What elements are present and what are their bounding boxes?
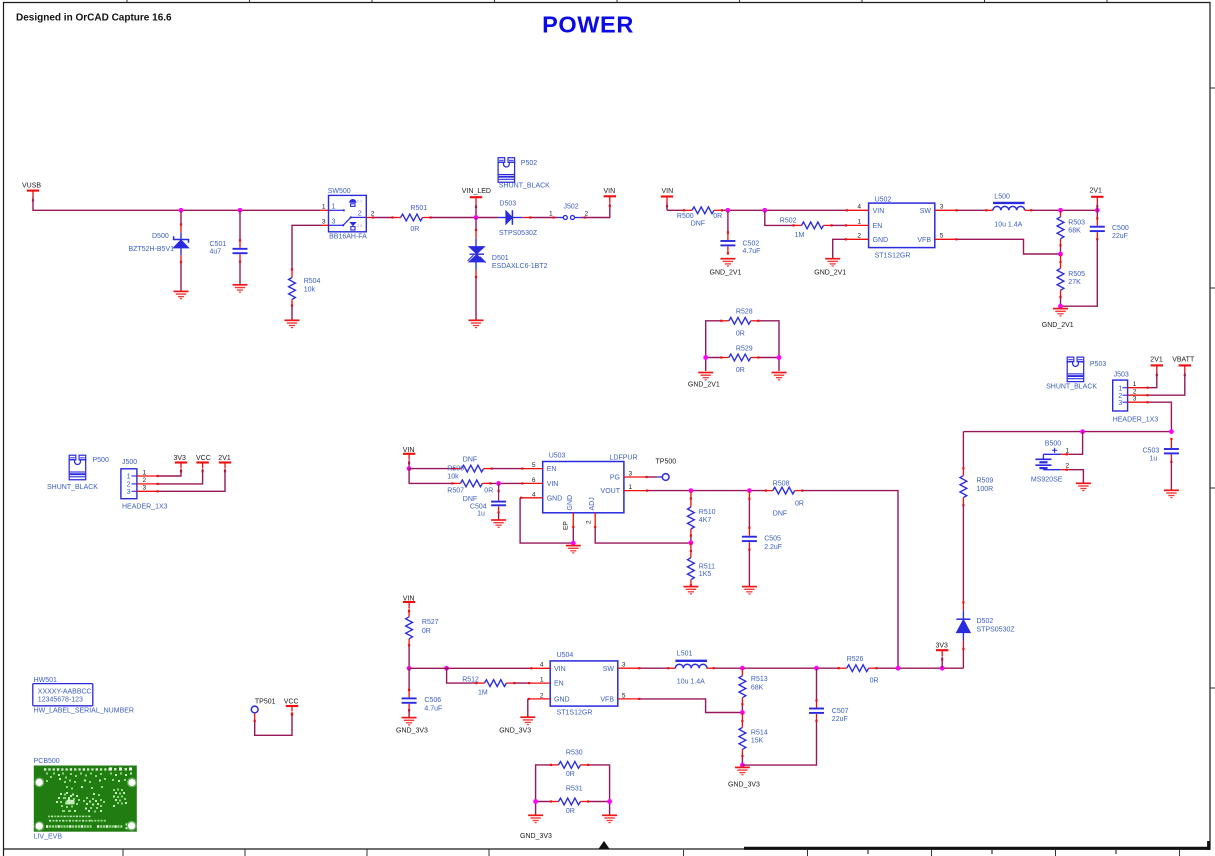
svg-text:D503: D503 <box>499 200 516 207</box>
wire R500 to U502 VIN <box>722 209 846 211</box>
switch SW500 BB16AH-FA <box>321 188 375 241</box>
svg-text:R526: R526 <box>847 656 864 663</box>
resistor R506 10k DNF <box>447 457 492 481</box>
svg-text:1u: 1u <box>477 510 485 517</box>
wire J502 pin 2 to VIN flag <box>581 203 610 217</box>
svg-text:HEADER_1X3: HEADER_1X3 <box>1113 417 1159 424</box>
svg-text:U503: U503 <box>549 452 566 459</box>
svg-text:EP: EP <box>563 521 570 530</box>
svg-text:VCC: VCC <box>196 455 211 462</box>
svg-text:6: 6 <box>532 477 536 484</box>
wire VIN to R500 <box>667 209 684 211</box>
ground GND_2V1 at U502 <box>814 259 846 277</box>
capacitor C502 4.7uF <box>720 210 760 255</box>
junction node C507 top <box>814 666 819 671</box>
svg-text:DNF: DNF <box>773 511 787 518</box>
svg-text:0R: 0R <box>566 808 575 815</box>
svg-text:STPS0530Z: STPS0530Z <box>977 627 1016 634</box>
svg-text:C505: C505 <box>764 536 781 543</box>
svg-text:R527: R527 <box>422 619 439 626</box>
svg-text:2.3: 2.3 <box>357 224 362 228</box>
svg-text:C502: C502 <box>743 241 760 248</box>
capacitor C507 22uF <box>809 668 849 723</box>
junction node R503 top <box>1058 208 1063 213</box>
power flag 3V3 <box>936 643 949 669</box>
svg-text:1: 1 <box>857 219 861 226</box>
wire R501 to VIN_LED node to D503 <box>431 217 498 219</box>
ground GND_3V3 at U504 <box>499 717 535 734</box>
svg-text:VFB: VFB <box>600 697 614 704</box>
wire U502 VFB to feedback node <box>958 239 1061 254</box>
svg-text:1: 1 <box>540 677 544 684</box>
svg-text:1: 1 <box>322 204 326 211</box>
wire SW500 pin 2 to R501 <box>374 217 393 219</box>
svg-text:4.7uF: 4.7uF <box>424 705 442 712</box>
svg-text:GND_2V1: GND_2V1 <box>688 381 720 388</box>
ground GND_3V3 at C506 <box>396 718 428 735</box>
junction node R529 right <box>777 355 782 360</box>
svg-text:2: 2 <box>540 692 544 699</box>
capacitor C500 22uF <box>1061 210 1129 306</box>
svg-text:U504: U504 <box>557 652 574 659</box>
junction node C501/VUSB <box>238 208 243 213</box>
wire U503 GND pin to ground node <box>520 498 573 543</box>
svg-text:PG: PG <box>610 475 620 482</box>
svg-text:2: 2 <box>586 520 593 524</box>
IC U502 ST1S12GR <box>845 197 958 260</box>
svg-text:DNF: DNF <box>463 457 477 464</box>
svg-text:4K7: 4K7 <box>699 517 712 524</box>
power flag VCC at TP501 <box>284 699 299 716</box>
junction node R513/R514 feedback <box>740 710 745 715</box>
title POWER <box>542 12 634 38</box>
ground GND_2V1 at R529 left <box>688 373 720 389</box>
svg-text:SHUNT_BLACK: SHUNT_BLACK <box>47 484 98 491</box>
svg-text:0R: 0R <box>422 628 431 635</box>
svg-text:3V3: 3V3 <box>174 455 187 462</box>
svg-text:2: 2 <box>585 211 589 218</box>
resistor R507 0R DNF <box>447 480 493 503</box>
svg-text:3: 3 <box>940 203 944 210</box>
shunt jumper P502 SHUNT_BLACK <box>498 158 550 190</box>
svg-text:12345678-123: 12345678-123 <box>38 696 83 703</box>
svg-text:R511: R511 <box>699 563 715 570</box>
IC U503 LDFPUR <box>520 452 648 530</box>
svg-text:C506: C506 <box>424 697 441 704</box>
sheet zone tick marks bottom edge <box>123 849 1180 856</box>
svg-text:3: 3 <box>332 217 336 226</box>
power flag VIN U503 input <box>403 447 416 469</box>
connector J503 HEADER_1X3 <box>1113 372 1159 424</box>
svg-text:VBATT: VBATT <box>1172 356 1195 363</box>
ground at R511 <box>683 587 698 594</box>
ground at C504 <box>491 520 506 527</box>
power flag VIN U502 input <box>661 188 673 210</box>
test point TP500 <box>648 458 677 480</box>
svg-text:VIN: VIN <box>662 188 674 195</box>
svg-text:1: 1 <box>332 202 336 211</box>
svg-text:L500: L500 <box>994 194 1010 201</box>
junction node U503 ground <box>571 541 576 546</box>
svg-text:ST1S12GR: ST1S12GR <box>875 253 911 260</box>
svg-text:GND: GND <box>547 495 563 502</box>
svg-text:MS920SE: MS920SE <box>1031 477 1063 484</box>
svg-text:3: 3 <box>143 485 147 492</box>
zener diode D500 BZT52H-B5V1 <box>129 210 189 291</box>
svg-text:SHUNT_BLACK: SHUNT_BLACK <box>499 182 550 189</box>
svg-text:2: 2 <box>143 477 147 484</box>
svg-text:GND_3V3: GND_3V3 <box>728 781 760 788</box>
svg-text:VOUT: VOUT <box>601 488 621 495</box>
svg-text:R506: R506 <box>447 465 464 472</box>
svg-text:D501: D501 <box>492 255 509 262</box>
svg-text:2: 2 <box>1133 388 1137 395</box>
svg-text:EN: EN <box>873 223 883 230</box>
svg-text:GND_3V3: GND_3V3 <box>499 727 531 734</box>
svg-text:C503: C503 <box>1143 448 1160 455</box>
battery B500 MS920SE <box>1031 432 1083 484</box>
resistor R528 0R <box>720 309 759 338</box>
svg-text:SW: SW <box>920 208 932 215</box>
wire B500 pin 2 to ground <box>1069 470 1084 483</box>
ground GND_2V1 at C502 <box>710 259 742 277</box>
svg-text:0R: 0R <box>795 500 804 507</box>
svg-text:R529: R529 <box>736 345 753 352</box>
svg-text:XXXXY-AABBCC: XXXXY-AABBCC <box>38 689 92 696</box>
wire R502 to U502 EN <box>832 224 845 226</box>
svg-text:DNF: DNF <box>463 496 477 503</box>
svg-text:VIN_LED: VIN_LED <box>462 188 491 195</box>
svg-text:4: 4 <box>532 491 536 498</box>
power flag 2V1 at J503 <box>1150 356 1163 376</box>
wire J500 pin 2 to VCC <box>159 469 203 484</box>
capacitor C505 2.2uF <box>742 491 782 587</box>
resistor R508 0R DNF <box>765 480 804 517</box>
svg-text:0R: 0R <box>566 771 575 778</box>
svg-text:VFB: VFB <box>917 237 931 244</box>
junction node C503 top <box>1169 429 1174 434</box>
wire VIN to R506 <box>409 468 454 470</box>
svg-text:3V3: 3V3 <box>936 643 949 650</box>
wire U503 ADJ pin down and right <box>595 528 691 543</box>
svg-text:R507: R507 <box>447 488 464 495</box>
svg-text:1M: 1M <box>478 690 488 697</box>
svg-text:HEADER_1X3: HEADER_1X3 <box>122 503 168 510</box>
junction node R512 branch <box>444 666 449 671</box>
junction node D500/VUSB <box>179 208 184 213</box>
power flag VIN right <box>604 188 617 207</box>
junction node VIN_LED <box>474 215 479 220</box>
svg-text:2V1: 2V1 <box>1150 356 1163 363</box>
svg-text:1: 1 <box>1066 447 1070 454</box>
svg-text:EN: EN <box>547 466 557 473</box>
wire branch to R502 <box>765 210 794 225</box>
resistor R500 0R DNF <box>677 207 723 228</box>
svg-text:2.1: 2.1 <box>357 200 362 204</box>
resistor R505 27K <box>1057 254 1085 306</box>
svg-text:0R: 0R <box>736 330 745 337</box>
svg-text:68K: 68K <box>1068 228 1081 235</box>
power flag 2V1 at J500 <box>218 455 231 472</box>
svg-text:EN: EN <box>554 681 564 688</box>
svg-text:4: 4 <box>540 662 544 669</box>
inductor L501 10u 1.4A <box>667 650 714 685</box>
svg-text:1K5: 1K5 <box>699 571 712 578</box>
svg-text:SHUNT_BLACK: SHUNT_BLACK <box>1046 384 1097 391</box>
svg-text:B500: B500 <box>1045 441 1061 448</box>
resistor R513 68K <box>739 668 768 712</box>
power flag VBATT at J503 <box>1172 356 1195 376</box>
svg-text:4.7uF: 4.7uF <box>743 248 761 255</box>
svg-text:15K: 15K <box>751 737 764 744</box>
svg-text:STPS0530Z: STPS0530Z <box>499 230 538 237</box>
wire VUSB to SW500 pin 1 <box>33 197 321 210</box>
svg-text:0R: 0R <box>713 213 722 220</box>
ground at D501 <box>469 320 484 327</box>
wire R526 to D502 anode <box>876 667 963 669</box>
wire R528/R529 loop <box>706 321 779 371</box>
svg-text:3: 3 <box>629 471 633 478</box>
svg-text:R508: R508 <box>773 480 790 487</box>
svg-text:3: 3 <box>127 487 131 496</box>
junction node C505 top <box>747 488 752 493</box>
svg-text:22uF: 22uF <box>1112 233 1128 240</box>
svg-text:VIN: VIN <box>554 666 566 673</box>
resistor R511 1K5 <box>688 543 716 587</box>
power flag VUSB <box>22 183 41 202</box>
wire VIN down to R507 <box>409 469 452 484</box>
resistor R502 1M <box>780 218 833 240</box>
svg-text:TP500: TP500 <box>656 458 677 465</box>
wire U504 SW to L501 <box>640 667 667 669</box>
svg-text:2: 2 <box>857 232 861 239</box>
resistor R509 100R <box>960 467 993 506</box>
svg-text:Designed in OrCAD Capture 16.6: Designed in OrCAD Capture 16.6 <box>16 13 172 24</box>
svg-text:10k: 10k <box>304 287 316 294</box>
wire branch to R512 <box>447 668 477 683</box>
svg-text:0R: 0R <box>870 678 879 685</box>
svg-text:VCC: VCC <box>284 699 299 706</box>
capacitor C504 1u <box>470 483 506 519</box>
svg-text:0R: 0R <box>736 367 745 374</box>
capacitor C506 4.7uF <box>402 668 443 717</box>
ground at C505 <box>742 587 757 594</box>
svg-text:L501: L501 <box>677 650 693 657</box>
junction node R529 left <box>703 355 708 360</box>
wire TP501 to VCC <box>255 713 292 735</box>
junction node 3V3 flag <box>940 666 945 671</box>
resistor R504 10k <box>289 268 321 320</box>
svg-text:22uF: 22uF <box>832 716 848 723</box>
svg-text:ST1S12GR: ST1S12GR <box>557 710 593 717</box>
junction node R513 top <box>740 666 745 671</box>
ground GND_2V1 at R505 <box>1042 309 1074 329</box>
svg-text:GND: GND <box>873 237 889 244</box>
svg-text:P500: P500 <box>93 457 109 464</box>
ground at C503 <box>1164 490 1179 497</box>
wire R530/R531 loop <box>536 765 610 815</box>
power flag VCC at J500 <box>196 455 211 472</box>
svg-text:VUSB: VUSB <box>22 183 41 190</box>
wire U504 GND to ground <box>527 699 529 717</box>
svg-text:C500: C500 <box>1112 225 1129 232</box>
svg-text:SW500: SW500 <box>328 188 351 195</box>
resistor R512 1M <box>462 676 515 696</box>
svg-text:ESDAXLC6-1BT2: ESDAXLC6-1BT2 <box>492 263 548 270</box>
ground at D500 <box>174 291 189 298</box>
svg-text:2V1: 2V1 <box>1090 187 1103 194</box>
junction node R502 branch <box>762 208 767 213</box>
sheet zone tick marks right edge <box>1210 88 1215 688</box>
svg-text:VIN: VIN <box>604 188 616 195</box>
svg-text:68K: 68K <box>751 685 764 692</box>
svg-text:1u: 1u <box>1150 456 1158 463</box>
junction node R531 left <box>533 799 538 804</box>
svg-text:5: 5 <box>622 692 626 699</box>
svg-text:PCB500: PCB500 <box>34 758 60 765</box>
wire R508 to 3V3 rail corner <box>802 491 898 669</box>
ground at R531 right <box>602 815 617 822</box>
sheet center alignment triangle bottom <box>599 842 609 849</box>
resistor R530 0R <box>550 749 589 778</box>
svg-text:D500: D500 <box>152 233 169 240</box>
svg-text:D502: D502 <box>977 618 994 625</box>
capacitor C503 1u <box>1143 438 1179 490</box>
svg-text:SW: SW <box>603 666 615 673</box>
svg-text:4u7: 4u7 <box>210 249 222 256</box>
ground at B500 <box>1076 483 1091 490</box>
wire R514 ground node to C507 bottom <box>742 721 816 765</box>
wire L500 to R503 and C500 and 2V1 <box>1032 209 1097 211</box>
junction node B500 top <box>1080 429 1085 434</box>
shunt jumper P503 SHUNT_BLACK <box>1046 357 1106 390</box>
svg-text:3: 3 <box>1118 398 1122 407</box>
svg-text:GND_2V1: GND_2V1 <box>1042 322 1074 329</box>
diode D503 STPS0530Z <box>498 200 538 237</box>
resistor R510 4K7 <box>688 491 716 543</box>
svg-text:3: 3 <box>322 219 326 226</box>
wire J503 pin 2 to VBATT <box>1149 372 1185 396</box>
svg-text:R513: R513 <box>751 676 768 683</box>
junction node R531 right <box>607 799 612 804</box>
svg-text:GND_3V3: GND_3V3 <box>396 727 428 734</box>
wire R509 to D502 <box>962 505 964 601</box>
svg-text:R501: R501 <box>410 205 427 212</box>
junction node C504 <box>496 481 501 486</box>
svg-text:0R: 0R <box>410 226 419 233</box>
svg-text:R530: R530 <box>566 749 583 756</box>
svg-text:R510: R510 <box>699 509 716 516</box>
svg-text:5: 5 <box>940 232 944 239</box>
junction node VIN U503 <box>407 466 412 471</box>
svg-text:R505: R505 <box>1068 271 1085 278</box>
wire J503 pin 1 to 2V1 <box>1149 372 1157 388</box>
TVS diode D501 ESDAXLC6-1BT2 <box>468 218 548 321</box>
wire L501 to R526 <box>715 667 839 669</box>
svg-text:R509: R509 <box>977 478 994 485</box>
text Designed in OrCAD Capture 16.6 <box>16 13 172 24</box>
junction node C502 <box>726 208 731 213</box>
svg-text:5: 5 <box>532 462 536 469</box>
svg-text:VIN: VIN <box>873 208 885 215</box>
ground GND_3V3 at R514 <box>728 767 760 788</box>
junction node R503/R505 feedback <box>1058 252 1063 257</box>
junction node R510 top <box>689 488 694 493</box>
wire SW500 pin 3 to R504 <box>292 225 322 269</box>
svg-text:GND_3V3: GND_3V3 <box>520 833 552 840</box>
ground at U503 EP <box>566 546 581 553</box>
svg-text:0R: 0R <box>484 488 493 495</box>
svg-text:100R: 100R <box>977 486 994 493</box>
wire J500 pin 3 to 2V1 <box>159 469 225 492</box>
svg-text:GND_2V1: GND_2V1 <box>710 269 742 276</box>
wire U503 VOUT to R508 run <box>648 490 766 492</box>
svg-text:R504: R504 <box>304 278 321 285</box>
inductor L500 10u 1.4A <box>985 194 1032 229</box>
wire J500 pin 1 to 3V3 <box>159 469 181 477</box>
shunt jumper P500 SHUNT_BLACK <box>47 455 109 491</box>
svg-text:R531: R531 <box>566 786 583 793</box>
wire R507 to U503 VIN <box>490 482 521 484</box>
wire R527 node to U504 VIN <box>409 667 530 669</box>
wire U502 GND to ground <box>833 239 845 258</box>
resistor R531 0R <box>550 786 589 815</box>
wire U503 EP pin to ground node <box>572 528 574 543</box>
power flag 3V3 at J500 <box>174 455 188 472</box>
wire bus corner down to R509 <box>962 432 964 469</box>
resistor R527 0R <box>406 609 439 669</box>
junction node C506/R527 <box>407 666 412 671</box>
svg-text:27K: 27K <box>1068 279 1081 286</box>
resistor R501 0R <box>392 205 432 233</box>
svg-text:10k: 10k <box>447 474 459 481</box>
power flag VIN U504 input <box>403 595 416 612</box>
svg-text:2V1: 2V1 <box>218 455 231 462</box>
connector J502 <box>549 204 589 220</box>
svg-text:R503: R503 <box>1068 220 1085 227</box>
svg-text:1: 1 <box>143 469 147 476</box>
IC U504 ST1S12GR <box>528 652 641 716</box>
svg-text:2: 2 <box>371 211 375 218</box>
svg-text:J500: J500 <box>122 459 137 466</box>
svg-text:4: 4 <box>857 203 861 210</box>
svg-text:R500: R500 <box>677 213 694 220</box>
ground at R504 <box>285 320 300 327</box>
wire R512 to U504 EN <box>514 682 528 684</box>
capacitor C501 4u7 <box>210 210 248 284</box>
svg-text:P502: P502 <box>521 160 537 167</box>
svg-text:GND_2V1: GND_2V1 <box>814 269 846 276</box>
svg-text:R514: R514 <box>751 729 768 736</box>
ground GND_3V3 at R531 left <box>520 815 552 840</box>
svg-text:ADJ: ADJ <box>589 497 596 510</box>
svg-text:DNF: DNF <box>691 221 705 228</box>
svg-text:R512: R512 <box>462 676 479 683</box>
svg-text:U502: U502 <box>875 197 892 204</box>
resistor R529 0R <box>720 345 759 374</box>
svg-text:J502: J502 <box>564 204 579 211</box>
junction node R514 bottom <box>740 763 745 768</box>
wire D503 to J502 pin 1 <box>531 217 557 219</box>
resistor R514 15K <box>739 713 768 766</box>
svg-text:HW_LABEL_SERIAL_NUMBER: HW_LABEL_SERIAL_NUMBER <box>34 707 134 714</box>
svg-text:R502: R502 <box>780 218 797 225</box>
ground at R529 right <box>772 373 787 380</box>
junction node R505 bottom <box>1058 304 1063 309</box>
svg-text:1: 1 <box>549 211 553 218</box>
hardware label HW501 <box>33 677 134 715</box>
power flag 2V1 at U502 output <box>1090 187 1104 210</box>
